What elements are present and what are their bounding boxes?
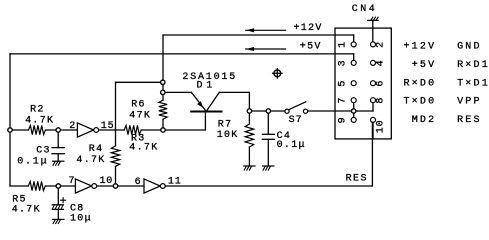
svg-text:4.7K: 4.7K (76, 155, 105, 166)
wire R4 lower lead (115, 166, 117, 186)
wire R3 to transistor base node (141, 129, 205, 131)
svg-text:0.1μ: 0.1μ (17, 157, 48, 168)
node R2 left junction on +5V rail (8, 128, 12, 132)
capacitor C3 upper lead (57, 130, 59, 148)
svg-text:0.1μ: 0.1μ (277, 140, 306, 151)
wire junction up to pin 7 (353, 103, 355, 111)
svg-text:7: 7 (338, 97, 349, 104)
CN4 pin 8 circle (371, 98, 376, 103)
wire +12V rail (163, 34, 354, 36)
wire riser to pin 8 (372, 103, 374, 111)
CN4 pin 2 circle (371, 42, 376, 47)
svg-text:RES: RES (457, 115, 482, 126)
wire +5V into CN4 pin 3 (353, 54, 355, 61)
svg-text:10K: 10K (217, 130, 239, 141)
svg-text:GND: GND (457, 42, 482, 53)
svg-text:1: 1 (338, 41, 349, 48)
wire base lead (204, 112, 206, 131)
inverter U1c pins 7-10 (75, 179, 91, 193)
transistor Q D1 2SA1015 (191, 92, 206, 111)
wire +5V left rail (9, 54, 11, 186)
svg-text:+12V: +12V (294, 23, 323, 34)
svg-text:R×D0: R×D0 (403, 79, 436, 90)
svg-text:4: 4 (375, 59, 386, 66)
svg-text:R×D1: R×D1 (457, 60, 489, 71)
wire +12V into CN4 pin 1 (353, 35, 355, 42)
svg-text:RES: RES (346, 174, 368, 185)
svg-text:S7: S7 (289, 115, 303, 126)
node R6 bottom junction (161, 128, 165, 132)
svg-text:MD2: MD2 (412, 115, 437, 126)
svg-text:10: 10 (375, 120, 386, 134)
ground below C3 (53, 160, 64, 162)
node C8 junction (56, 184, 60, 188)
ground below C4 (263, 165, 274, 167)
resistor R7 (245, 124, 253, 147)
svg-text:47K: 47K (129, 111, 151, 122)
switch S7 (285, 109, 289, 113)
wire R7 upper lead (248, 111, 250, 124)
node junction at x163 y82 (161, 80, 165, 84)
node emitter junction at x163 y92 (161, 90, 165, 94)
CN4 pin 6 circle (371, 81, 376, 86)
wire RES net horizontal (165, 185, 372, 187)
node CN4 pin7 junction (352, 109, 356, 113)
fiducial crosshair symbol (274, 70, 281, 77)
svg-text:+5V: +5V (412, 60, 437, 71)
node R4 bottom junction (113, 184, 117, 188)
svg-text:6: 6 (375, 80, 386, 87)
wire R5 to inverter pin7 (45, 185, 75, 187)
wire bottom rail into R5 (10, 185, 28, 187)
wire CN4 pin10 stub (372, 122, 374, 138)
inverter U1d pins 6-11 (144, 179, 160, 193)
CN4 pin 5 circle (351, 81, 356, 86)
wire switch to CN4 pins 7-8 (308, 110, 373, 112)
wire R7 lower lead (248, 147, 250, 166)
node C3 junction (56, 128, 60, 132)
inverter U1a pins 2-15 (77, 123, 93, 137)
connector CN4 body (335, 28, 391, 139)
CN4 pin 7 circle (351, 98, 356, 103)
svg-text:VPP: VPP (457, 97, 482, 108)
svg-text:D1: D1 (197, 81, 217, 92)
svg-text:8: 8 (375, 97, 386, 104)
capacitor C3 lower lead (57, 154, 59, 161)
wire collector (219, 91, 249, 93)
wire R2 to inverter pin2 (46, 129, 78, 131)
svg-text:CN4: CN4 (352, 4, 378, 15)
node C4 junction (266, 109, 270, 113)
svg-text:T×D0: T×D0 (403, 97, 436, 108)
svg-text:2: 2 (375, 41, 386, 48)
resistor R2 (29, 125, 46, 134)
svg-text:R7: R7 (218, 119, 233, 130)
resistor R4 (111, 146, 119, 167)
capacitor C8 lower lead (57, 209, 59, 219)
svg-text:+12V: +12V (403, 42, 436, 53)
resistor R3 (124, 125, 141, 134)
wire inverter15 out to R3 (99, 129, 125, 131)
svg-text:9: 9 (338, 116, 349, 123)
wire RES net vertical to CN4 pin 10 (371, 122, 373, 186)
wire R4 vertical upper (115, 82, 117, 146)
svg-text:4.7K: 4.7K (12, 205, 41, 216)
wire emitter (163, 91, 192, 93)
wire inverter10 out to inverter6 in (97, 185, 144, 187)
wire collector node to switch (249, 110, 285, 112)
svg-text:R4: R4 (89, 144, 104, 155)
capacitor C4 lower lead (267, 139, 269, 166)
wire R6 bottom lead (162, 119, 164, 130)
wire +5V top rail (10, 53, 354, 55)
resistor R5 (28, 181, 45, 190)
svg-text:2: 2 (69, 121, 75, 132)
ground below R7 (244, 165, 255, 167)
resistor R6 (159, 100, 167, 119)
ground below C8 (53, 218, 64, 220)
capacitor C4 plates (262, 133, 274, 135)
svg-text:R2: R2 (30, 105, 45, 116)
CN4 pin 1 circle (351, 42, 356, 47)
svg-text:R6: R6 (131, 100, 146, 111)
svg-text:10μ: 10μ (70, 214, 92, 225)
svg-text:5: 5 (338, 80, 349, 87)
capacitor C8 positive lead (57, 186, 59, 205)
shield symbol above CN4 (372, 20, 374, 42)
CN4 pin 4 circle (371, 60, 376, 65)
wire +12V vertical drop at x=163 (162, 35, 164, 100)
svg-text:3: 3 (338, 59, 349, 66)
node R7 junction (247, 109, 251, 113)
wire rail to R2 (10, 129, 29, 131)
wire upper branch to R4 (116, 81, 163, 83)
CN4 pin 10 circle (371, 117, 376, 122)
svg-text:4.7K: 4.7K (25, 116, 54, 127)
capacitor C4 upper lead (267, 111, 269, 134)
svg-text:7: 7 (69, 176, 75, 187)
svg-text:T×D1: T×D1 (457, 79, 489, 90)
svg-text:6: 6 (135, 177, 141, 188)
capacitor C3 plates (52, 147, 65, 149)
power arrow +5V (246, 48, 286, 50)
svg-text:+5V: +5V (300, 42, 322, 53)
svg-text:4.7K: 4.7K (129, 143, 158, 154)
CN4 pin 9 circle (351, 117, 356, 122)
capacitor C8 plus sign (61, 199, 66, 201)
capacitor C8 plates (electrolytic hatched) (52, 204, 63, 206)
power arrow +12V (246, 29, 286, 31)
CN4 pin 3 circle (351, 60, 356, 65)
wire junction down to pin 9 (353, 111, 355, 117)
svg-text:C3: C3 (36, 145, 51, 156)
